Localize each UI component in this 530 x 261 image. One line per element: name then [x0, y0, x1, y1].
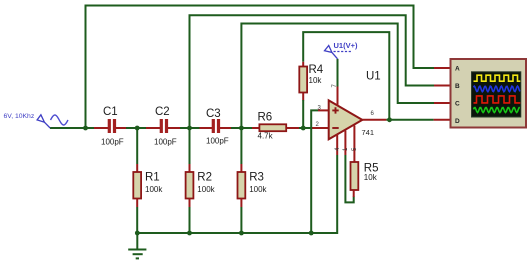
- node 1 junction dot: [135, 126, 140, 131]
- node 2 junction dot: [187, 126, 192, 131]
- resistor R3 (100k): [238, 128, 268, 233]
- svg-text:4.7k: 4.7k: [258, 132, 274, 141]
- wire: op-amp pin 5 to R5 top: [352, 126, 358, 163]
- wire: op-amp output to scope channel D: [362, 117, 450, 122]
- resistor R6 (horizontal, 4.7k): [252, 112, 299, 141]
- wire: op-amp pin 4 down to ground bus: [335, 134, 341, 155]
- wire: node3 segment: [231, 127, 252, 129]
- svg-text:U1: U1: [366, 71, 381, 83]
- resistor R2 (100k): [186, 128, 216, 233]
- svg-text:100pF: 100pF: [101, 138, 124, 147]
- signal generator input flag (6V, 10Khz): [4, 113, 69, 128]
- wire: scope pin B stub: [434, 85, 451, 87]
- resistor R4 (feedback, 10k): [299, 62, 324, 128]
- svg-text:B: B: [455, 83, 460, 90]
- wire: node1 segment: [126, 127, 146, 129]
- svg-text:A: A: [455, 66, 460, 73]
- node: inverting input junction dot: [301, 126, 306, 131]
- svg-text:D: D: [455, 118, 460, 125]
- op-amp U1 (741): [316, 71, 381, 140]
- svg-text:100k: 100k: [197, 185, 215, 194]
- resistor R5 (10k): [351, 162, 379, 197]
- svg-text:C1: C1: [103, 106, 118, 118]
- svg-text:100pF: 100pF: [206, 137, 229, 146]
- svg-text:R2: R2: [197, 172, 212, 184]
- capacitor C1: [94, 106, 126, 147]
- wire: op-amp pin 3 stub: [318, 109, 330, 111]
- svg-text:R4: R4: [309, 64, 324, 76]
- wire: scope pin A stub: [434, 67, 451, 69]
- wire: op-amp pin 2 stub: [312, 127, 330, 129]
- svg-text:C: C: [455, 101, 460, 108]
- svg-text:R1: R1: [145, 172, 160, 184]
- wire: ground bus: [137, 155, 337, 233]
- wire: node2 segment: [180, 127, 200, 129]
- wire: inverting input node segment to pin 2: [299, 127, 312, 129]
- svg-text:10k: 10k: [364, 173, 378, 182]
- wire: scope pin C stub: [434, 102, 451, 104]
- wire: input rail from source to C1 node: [50, 127, 94, 129]
- svg-text:741: 741: [362, 128, 375, 137]
- svg-text:100k: 100k: [145, 185, 163, 194]
- svg-text:U1(V+): U1(V+): [334, 41, 358, 50]
- scope trace A (yellow square wave): [474, 75, 521, 81]
- capacitor C3: [200, 108, 232, 146]
- svg-text:C2: C2: [155, 106, 170, 118]
- node 3 junction dot: [239, 126, 244, 131]
- resistor R1 (100k): [133, 128, 163, 233]
- node A junction dot (input node): [83, 126, 88, 131]
- svg-text:R6: R6: [258, 112, 273, 124]
- svg-text:100pF: 100pF: [154, 138, 177, 147]
- wire: net A loop input node to scope channel A: [86, 6, 435, 129]
- wire: op-amp pin 7 (V+): [337, 59, 339, 106]
- svg-text:100k: 100k: [249, 185, 267, 194]
- scope trace B (blue sine): [474, 86, 520, 92]
- wire: net B loop node1 to scope channel B: [190, 15, 435, 128]
- wire: feedback net from output up over to R4 top: [303, 32, 389, 120]
- scope trace C (red square wave): [474, 96, 521, 103]
- ground: [128, 233, 146, 258]
- power flag U1(V+): [325, 41, 358, 59]
- junction dots on ground bus: [135, 231, 140, 236]
- svg-text:6V, 10Khz: 6V, 10Khz: [4, 113, 35, 120]
- scope trace D (green sine): [474, 108, 520, 113]
- capacitor C2: [146, 106, 180, 147]
- svg-text:C3: C3: [206, 108, 221, 120]
- wire: net C loop node2 to scope channel C: [241, 24, 434, 129]
- wire: op-amp pin 1 down and over to R5 bottom: [343, 131, 354, 203]
- wire: non-inverting input to ground bus (vertical at x=311.2): [311, 110, 318, 233]
- oscilloscope: [451, 59, 527, 128]
- svg-text:10k: 10k: [309, 76, 323, 85]
- svg-text:R3: R3: [249, 172, 264, 184]
